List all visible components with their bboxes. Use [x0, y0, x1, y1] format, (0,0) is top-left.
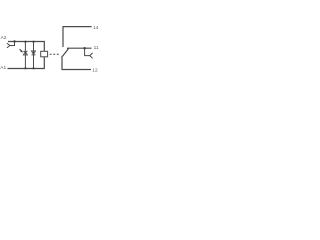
- svg-text:A2: A2: [1, 35, 7, 41]
- svg-text:12: 12: [92, 68, 98, 74]
- svg-text:14: 14: [93, 25, 99, 31]
- svg-text:11: 11: [94, 45, 99, 51]
- svg-text:A1: A1: [0, 65, 6, 71]
